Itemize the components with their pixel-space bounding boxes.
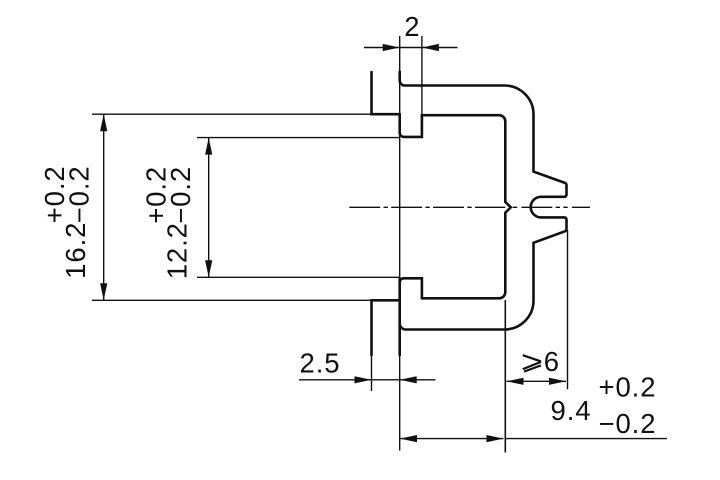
- svg-text:−0.2: −0.2: [64, 165, 95, 223]
- arrowhead >=6 right (points right): [549, 378, 566, 385]
- extension line 2.5 left: [371, 356, 373, 392]
- extension line x=399.7 (dim 2 left / 9.4 left): [399, 36, 401, 451]
- extension line 16.2 bottom: [92, 299, 372, 301]
- dimension line 12.2: [208, 138, 210, 278]
- bottom groove (right wall, top, left corner radius): [400, 278, 422, 298]
- centerline right of inner cone point: [513, 206, 590, 208]
- greater-or-slanted-equal symbol of >=6 (drawn, glyph missing in Liberation): [523, 355, 541, 371]
- arrowhead 9.4 right (points right): [487, 435, 504, 442]
- top groove (left wall, bottom, right wall): [400, 114, 422, 137]
- dimension line 9.4 with right tail: [400, 438, 504, 440]
- arrowhead 12.2 up: [205, 138, 212, 155]
- arrowhead 2.5 right (points left): [400, 376, 417, 383]
- svg-text:−0.2: −0.2: [599, 408, 657, 439]
- arrowhead >=6 left (points left): [507, 378, 524, 385]
- arrowhead 16.2 up: [100, 114, 107, 131]
- extension line x=505.3 (9.4 right / >=6 left): [504, 300, 506, 453]
- svg-text:2.5: 2.5: [300, 347, 341, 378]
- arrowhead 12.2 down: [205, 260, 212, 277]
- svg-text:6: 6: [544, 346, 560, 377]
- extension line x=421.9 (dim 2 right): [421, 36, 423, 137]
- arrowhead 16.2 down: [100, 283, 107, 300]
- svg-text:12.2: 12.2: [161, 222, 192, 279]
- extension line 12.2 top: [197, 137, 400, 139]
- tube inner wall top stub, fillet, cap top outer surface, outer corner radius, right outer wall, top barb: [400, 72, 567, 330]
- arrowhead 2 right (points left): [422, 44, 439, 51]
- extension line 16.2 top: [92, 113, 372, 115]
- centerline left of inner cone point: [349, 206, 505, 208]
- svg-text:−0.2: −0.2: [165, 166, 196, 224]
- dimension line 2 (left tail and right tail): [364, 47, 458, 49]
- dimension line 2.5 (left tail and right tail): [299, 379, 436, 381]
- tube inner wall bottom (continuous through cap wall): [398, 278, 401, 355]
- arrowhead 2.5 left (points right): [355, 376, 372, 383]
- extension line 12.2 bottom: [197, 276, 400, 278]
- svg-text:+0.2: +0.2: [599, 371, 657, 402]
- dimension line >=6: [507, 380, 567, 382]
- svg-text:16.2: 16.2: [60, 222, 91, 279]
- svg-text:9.4: 9.4: [551, 395, 592, 426]
- tube outer wall top stub + flange top surface: [372, 72, 400, 114]
- arrowhead 2 left (points right): [383, 44, 400, 51]
- inner top surface, inner corner radius, inner right wall, center point, inner wall lower, radius, inner bottom surface: [422, 115, 511, 298]
- extension line x=567.5 (>=6 right): [567, 230, 569, 389]
- arrowhead 9.4 left (points left): [400, 435, 417, 442]
- svg-text:2: 2: [404, 11, 420, 42]
- flange bottom surface + tube outer wall bottom stub: [372, 300, 400, 355]
- dimension line 16.2: [103, 114, 105, 300]
